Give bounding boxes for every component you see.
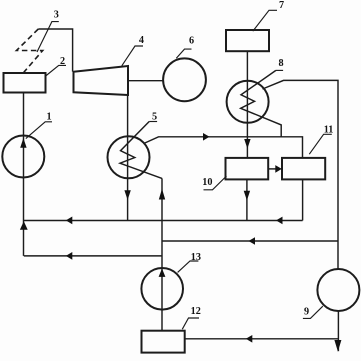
svg-text:10: 10 — [202, 177, 212, 188]
svg-text:2: 2 — [60, 56, 65, 67]
svg-text:3: 3 — [54, 10, 59, 21]
svg-text:5: 5 — [152, 112, 157, 123]
svg-text:7: 7 — [279, 0, 284, 11]
svg-text:8: 8 — [278, 58, 283, 69]
svg-text:11: 11 — [324, 125, 334, 136]
svg-text:4: 4 — [139, 35, 144, 46]
svg-text:9: 9 — [304, 306, 309, 317]
svg-text:12: 12 — [191, 306, 201, 317]
svg-text:13: 13 — [191, 252, 201, 263]
svg-text:6: 6 — [189, 35, 194, 46]
svg-text:1: 1 — [46, 112, 51, 123]
